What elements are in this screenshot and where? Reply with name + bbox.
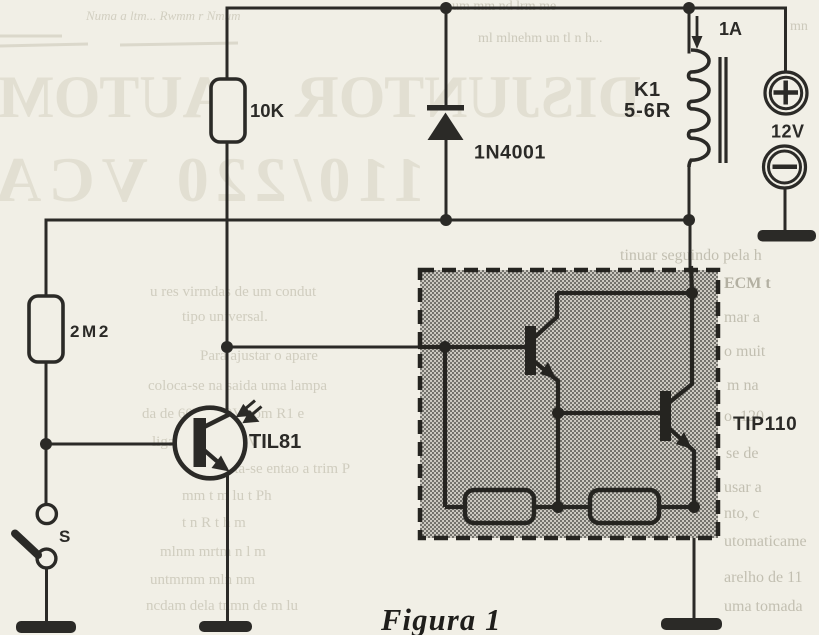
- wire diode top: [445, 8, 448, 107]
- wire diode bottom: [445, 138, 448, 220]
- transistor Q2 emitter arrow: [676, 432, 692, 449]
- ghost left column text: [142, 284, 350, 614]
- wire K1 to TIP110 collector: [689, 220, 692, 292]
- switch S: [15, 504, 56, 567]
- wire mid rail: [46, 219, 689, 222]
- wire 2M2 bottom: [45, 362, 48, 504]
- transistor Q2: [660, 391, 671, 441]
- svg-text:untmrnm mln nm: untmrnm mln nm: [150, 572, 255, 588]
- junction node K1-mid rail: [683, 214, 695, 226]
- junction node TIP110 top right: [686, 287, 698, 299]
- wires inside TIP110: [418, 266, 694, 507]
- junction node Q1 emitter / Q2 base: [552, 407, 564, 419]
- svg-text:DISJUNTOR: DISJUNTOR: [295, 64, 641, 130]
- svg-text:2M2: 2M2: [70, 322, 111, 341]
- svg-text:usar a: usar a: [724, 479, 762, 496]
- ground switch: [16, 621, 76, 633]
- svg-text:m na: m na: [727, 377, 759, 394]
- relay core lines: [718, 57, 721, 163]
- wire base to Q1: [418, 345, 527, 349]
- junction node base branch: [221, 341, 233, 353]
- junction node bottom mid: [552, 501, 564, 513]
- svg-text:10K: 10K: [250, 100, 285, 121]
- wire TIL81 base: [46, 443, 196, 446]
- diode 1N4001: [427, 105, 464, 140]
- ground TIP110: [661, 618, 722, 630]
- wire K1 top: [688, 8, 691, 52]
- ground TIL81: [199, 621, 252, 632]
- wire mid node to Q2 base: [558, 411, 662, 415]
- light arrows into TIL81: [239, 401, 262, 422]
- wire 10K bottom to TIL81 collector: [226, 141, 229, 414]
- wire K1 drop inside box: [691, 266, 692, 292]
- ground 12V: [758, 230, 817, 242]
- junction node top-diode: [440, 2, 452, 14]
- svg-text:se de: se de: [726, 445, 758, 462]
- svg-text:Figura 1: Figura 1: [380, 603, 502, 635]
- svg-text:mar a: mar a: [724, 309, 760, 326]
- junction node 2M2 / base wire: [40, 438, 52, 450]
- svg-text:t n R t h m: t n R t h m: [182, 515, 246, 531]
- wire TIP110 base from node A: [227, 346, 445, 349]
- ghost top-right text fragments: [452, 0, 808, 46]
- wire 10K top: [226, 8, 229, 80]
- svg-text:utomaticame: utomaticame: [724, 533, 807, 550]
- battery - terminal: [764, 146, 806, 188]
- svg-text:o muit: o muit: [724, 343, 766, 360]
- svg-text:coloca-se na saida uma lampa: coloca-se na saida uma lampa: [148, 378, 327, 394]
- resistor R1 in TIP110: [465, 490, 534, 523]
- wire Q1 emitter to mid node: [535, 362, 558, 413]
- wire TIP110 emitter to ground: [693, 538, 696, 620]
- relay coil K1: [689, 50, 709, 167]
- svg-text:Para ajustar o apare: Para ajustar o apare: [200, 348, 318, 364]
- wire K1 bottom: [688, 166, 691, 220]
- ghost bleed-through title row 1 (mirrored): [0, 64, 641, 130]
- svg-text:tipo universal.: tipo universal.: [182, 309, 268, 325]
- junction node bottom right: [688, 501, 700, 513]
- transistor Q1: [525, 326, 536, 375]
- wire right drop to +12V: [784, 8, 787, 72]
- svg-text:S: S: [59, 527, 70, 546]
- svg-text:ECM t: ECM t: [724, 275, 771, 292]
- svg-text:K1: K1: [634, 79, 661, 101]
- svg-text:TIL81: TIL81: [249, 431, 301, 453]
- transistor Q1 emitter arrow: [540, 362, 556, 379]
- ghost bleed-through title row 2 (mirrored): [0, 144, 425, 215]
- ghost right column text: [620, 247, 807, 615]
- svg-text:mlnm mrtm n l m: mlnm mrtm n l m: [160, 544, 266, 560]
- junction node top-K1: [683, 2, 695, 14]
- svg-text:nto, c: nto, c: [724, 505, 760, 522]
- junction node TIP110 base: [439, 341, 451, 353]
- battery + terminal: [765, 72, 807, 114]
- resistor 10K: [211, 79, 245, 142]
- darlington TIP110 module box: [420, 270, 718, 538]
- resistor R2 in TIP110: [590, 490, 659, 523]
- svg-text:12V: 12V: [771, 122, 805, 142]
- wire mid rail left drop to 2M2: [45, 220, 48, 297]
- wire top rail in box: [557, 291, 692, 295]
- wire mid node down: [556, 413, 560, 507]
- wire switch S to ground: [45, 568, 48, 622]
- wire top rail: [227, 7, 786, 10]
- svg-text:1N4001: 1N4001: [474, 142, 546, 164]
- svg-text:110/220 VCA: 110/220 VCA: [0, 144, 425, 215]
- phototransistor TIL81: [175, 408, 246, 479]
- svg-text:arelho de 11: arelho de 11: [724, 569, 802, 586]
- svg-text:u res virmdas de um condut: u res virmdas de um condut: [150, 284, 317, 300]
- svg-text:ncdam dela tnmn de m lu: ncdam dela tnmn de m lu: [146, 598, 299, 614]
- svg-text:Numa a ltm... Rwmm r Nmum: Numa a ltm... Rwmm r Nmum: [85, 8, 241, 23]
- wire Q2 emitter: [670, 429, 694, 507]
- svg-text:5-6R: 5-6R: [624, 100, 671, 122]
- junction node diode-mid rail: [440, 214, 452, 226]
- resistor 2M2: [29, 296, 63, 362]
- wire bottom rail in box: [445, 505, 694, 509]
- svg-text:uma tomada: uma tomada: [724, 598, 803, 615]
- wire Q2 collector: [670, 293, 692, 402]
- wire TIL81 emitter to ground: [226, 470, 229, 622]
- svg-text:AUTOM: AUTOM: [0, 64, 226, 130]
- svg-text:TIP110: TIP110: [733, 414, 797, 435]
- svg-text:ml mlnehm un tl n h...: ml mlnehm un tl n h...: [478, 31, 602, 46]
- ghost top rules: [0, 36, 238, 46]
- wire 12V minus to ground: [784, 188, 787, 231]
- wire Q1 collector: [535, 293, 557, 337]
- current arrow 1A: [692, 16, 703, 49]
- svg-text:mn: mn: [790, 19, 808, 34]
- wire base node down: [443, 347, 447, 507]
- svg-text:1A: 1A: [719, 19, 742, 39]
- ghost top-left caption fragment: [85, 8, 241, 23]
